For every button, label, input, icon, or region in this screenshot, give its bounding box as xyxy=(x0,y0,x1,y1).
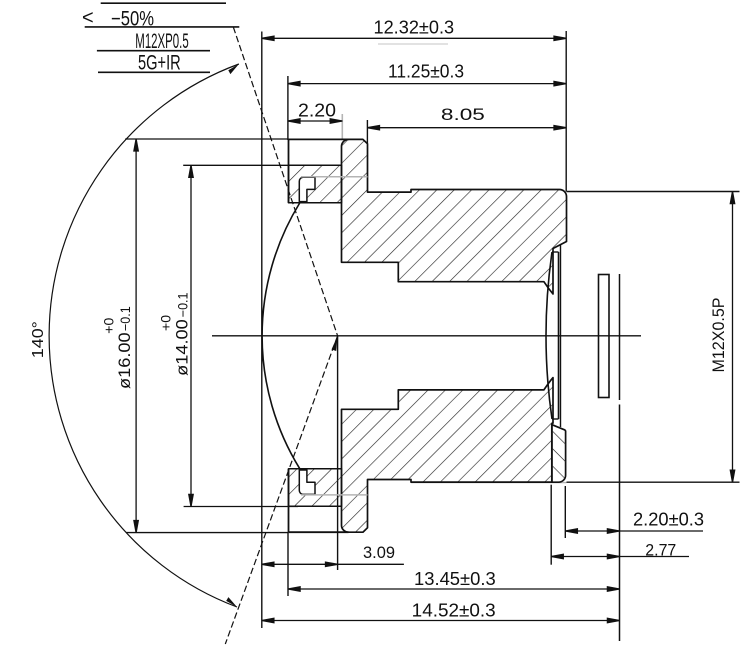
svg-text:+0: +0 xyxy=(159,315,174,331)
centerline xyxy=(212,335,641,337)
extension line 2.20 x=565.3 xyxy=(564,486,566,538)
svg-text:12.32±0.3: 12.32±0.3 xyxy=(374,18,455,38)
extension line rear-face x=566.2 xyxy=(565,31,567,192)
extension line dia14 top xyxy=(183,164,288,166)
svg-text:140°: 140° xyxy=(30,321,47,358)
annotation underline row4 xyxy=(98,71,210,73)
extension line gray x=342.3 xyxy=(341,114,343,140)
dimension M12 line xyxy=(730,192,734,483)
extension line dia14 bottom xyxy=(184,506,298,508)
svg-text:+0: +0 xyxy=(102,318,117,334)
rear lock ring block xyxy=(552,425,566,483)
extension line cone-vertex x=337.6 xyxy=(337,336,339,570)
svg-text:−50%: −50% xyxy=(111,8,154,31)
extension line M12 bottom gray overlap xyxy=(411,482,567,484)
svg-text:8.05: 8.05 xyxy=(441,106,485,124)
rear recess wall line xyxy=(560,245,562,427)
svg-text:M12XP0.5: M12XP0.5 xyxy=(135,30,188,53)
extension line dia16 bottom xyxy=(126,532,288,534)
svg-text:ø14.00: ø14.00 xyxy=(173,319,192,376)
svg-text:3.09: 3.09 xyxy=(363,543,395,562)
dimension 12.32 line xyxy=(262,36,566,40)
extension line dia16 top xyxy=(125,138,288,140)
flange bottom edge over white band xyxy=(289,531,349,533)
lower barrel piece xyxy=(342,378,554,533)
svg-text:M12X0.5P: M12X0.5P xyxy=(709,298,728,373)
front face edge lower xyxy=(288,469,290,532)
front face edge xyxy=(288,139,290,202)
upper barrel piece xyxy=(342,139,567,294)
IR filter rectangle xyxy=(599,275,610,398)
extension line 2.77 x=551.2 xyxy=(550,485,552,565)
svg-text:2.77: 2.77 xyxy=(645,542,676,560)
dimension 8.05 line xyxy=(367,126,566,130)
extension line front-face bottom x=288 xyxy=(287,532,289,596)
dimension 2.77 xyxy=(551,554,689,558)
svg-text:−0.1: −0.1 xyxy=(176,293,191,318)
annotation underline row1 (partial top) xyxy=(101,2,226,4)
image plane line x=619.5 xyxy=(619,274,621,400)
svg-text:13.45±0.3: 13.45±0.3 xyxy=(414,569,496,589)
extension line M12 bottom y=482.2 xyxy=(567,481,740,483)
gray groove line upper xyxy=(301,176,368,178)
svg-text:−0.1: −0.1 xyxy=(118,306,133,331)
ray arrowhead at vertex xyxy=(332,336,338,351)
FOV ray upper xyxy=(233,27,337,336)
dimension 2.20 bottom xyxy=(565,529,703,533)
front ring upper xyxy=(289,165,342,203)
dimension 13.45 xyxy=(288,587,620,591)
dimension dia14 line xyxy=(189,165,193,506)
svg-text:ø16.00: ø16.00 xyxy=(115,332,134,389)
dimension 3.09 xyxy=(262,562,404,566)
extension line 8.05 x=367.4 xyxy=(366,120,368,143)
svg-text:2.20: 2.20 xyxy=(298,101,336,121)
FOV ray lower xyxy=(225,336,337,644)
rear lens element xyxy=(546,252,552,419)
dimension 2.20 top line xyxy=(288,119,342,123)
annotation underline row2 xyxy=(85,26,240,28)
svg-text:2.20±0.3: 2.20±0.3 xyxy=(633,510,704,530)
extension line apex vertical x=261.8 xyxy=(261,32,263,629)
front ring lower xyxy=(289,469,342,507)
annotation underline row3 xyxy=(97,50,210,52)
svg-text:<: < xyxy=(82,7,94,29)
faint artifact line xyxy=(378,43,448,45)
svg-text:5G+IR: 5G+IR xyxy=(138,51,181,74)
dimension 140deg arc xyxy=(49,64,239,607)
dimension 14.52 xyxy=(262,618,620,622)
svg-text:11.25±0.3: 11.25±0.3 xyxy=(388,62,464,82)
dimension dia16 line xyxy=(134,139,138,533)
extension line M12 top y=191.5 xyxy=(567,191,740,193)
dome front surface arc xyxy=(262,203,300,469)
extension line front-face top x=287.9 xyxy=(287,76,289,140)
dimension 11.25 line xyxy=(288,81,566,85)
gray groove line lower xyxy=(301,494,368,496)
svg-text:14.52±0.3: 14.52±0.3 xyxy=(412,601,496,621)
flange top edge over white band xyxy=(289,138,349,140)
